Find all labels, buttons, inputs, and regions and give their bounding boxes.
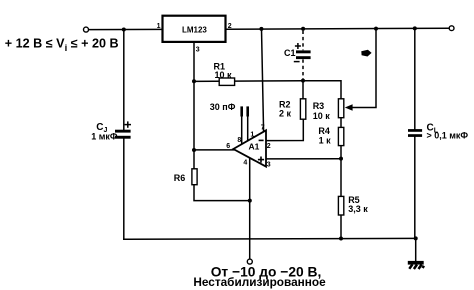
svg-text:30 пФ: 30 пФ xyxy=(210,102,236,112)
svg-text:8: 8 xyxy=(237,137,241,144)
svg-text:Нестабилизированное: Нестабилизированное xyxy=(193,275,326,289)
svg-text:C1: C1 xyxy=(284,48,296,58)
svg-text:A1: A1 xyxy=(249,142,260,152)
svg-text:1: 1 xyxy=(157,23,161,30)
svg-text:R4: R4 xyxy=(318,126,330,136)
svg-text:7: 7 xyxy=(261,125,265,132)
svg-text:6: 6 xyxy=(226,143,230,150)
svg-text:LM123: LM123 xyxy=(182,25,207,34)
svg-text:3,3 к: 3,3 к xyxy=(348,204,368,214)
svg-text:10 к: 10 к xyxy=(313,111,331,121)
svg-text:1 к: 1 к xyxy=(319,135,332,145)
svg-text:3: 3 xyxy=(267,161,271,168)
svg-text:2: 2 xyxy=(267,143,271,150)
svg-text:2 к: 2 к xyxy=(279,108,292,118)
svg-text:R3: R3 xyxy=(313,101,325,111)
svg-text:1: 1 xyxy=(250,132,254,139)
svg-text:10 к: 10 к xyxy=(215,70,233,80)
svg-text:2: 2 xyxy=(228,23,232,30)
svg-text:3: 3 xyxy=(196,46,200,53)
svg-text:4: 4 xyxy=(243,160,247,167)
svg-text:R6: R6 xyxy=(174,173,186,183)
